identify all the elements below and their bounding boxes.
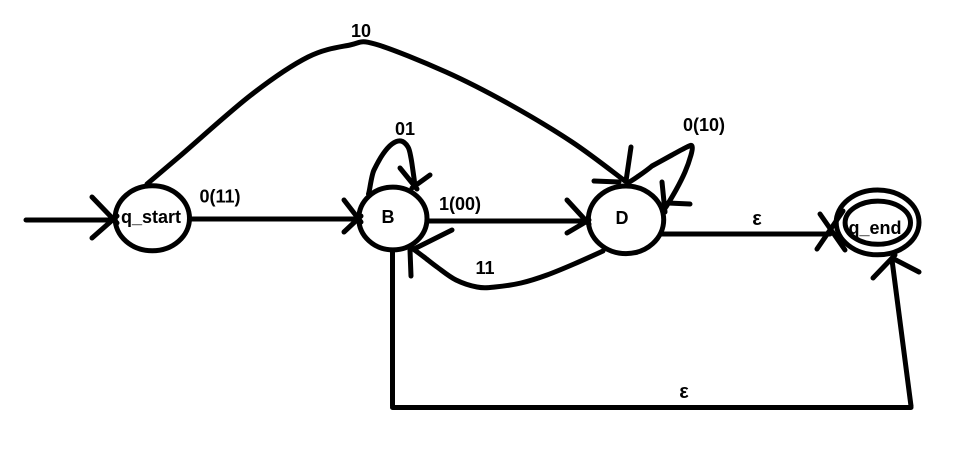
wire: q_start to B shaft, label 0(11) xyxy=(192,217,356,222)
svg-text:q_end: q_end xyxy=(848,218,901,238)
svg-text:ε: ε xyxy=(679,381,689,403)
wire: right rising segment of epsilon path to q_end xyxy=(892,260,911,406)
svg-text:D: D xyxy=(616,208,629,228)
wire: B self-loop, label 01 xyxy=(369,141,416,194)
svg-text:1(00): 1(00) xyxy=(439,194,481,214)
wire: D to q_end shaft, label epsilon xyxy=(661,232,830,237)
wire: arrowhead at q_end bottom xyxy=(873,255,919,278)
node q_end: inner circle of accepting state xyxy=(845,201,910,244)
svg-text:ε: ε xyxy=(752,208,762,230)
wire: arrowhead at B bottom-right for 11 xyxy=(410,230,452,276)
svg-text:0(11): 0(11) xyxy=(199,187,240,207)
node D: state circle xyxy=(588,186,663,254)
wire: start arrowhead at q_start xyxy=(92,197,117,238)
svg-text:0(10): 0(10) xyxy=(683,115,725,135)
wire: q_start to D big curve, label 10 xyxy=(147,42,625,184)
node q_end: outer circle of accepting state xyxy=(836,190,919,255)
node B: state circle xyxy=(359,187,427,250)
svg-text:B: B xyxy=(382,207,395,227)
wire: D to B curve, label 11 xyxy=(412,248,603,288)
wire: arrowhead at B left xyxy=(344,200,361,232)
wire: B to D shaft, label 1(00) xyxy=(427,219,585,224)
svg-text:11: 11 xyxy=(475,258,494,278)
wire: B self-loop arrowhead xyxy=(400,168,430,189)
wire: D self-loop, label 0(10) xyxy=(629,145,693,207)
svg-text:q_start: q_start xyxy=(121,207,181,227)
wire: arrowhead at D top xyxy=(594,147,631,182)
svg-text:10: 10 xyxy=(351,21,371,41)
wire: start arrow shaft into q_start xyxy=(26,218,112,223)
svg-text:01: 01 xyxy=(395,119,415,139)
wire: arrowhead at q_end left (crossed strokes) xyxy=(817,211,845,250)
wire: bottom horizontal segment of epsilon path xyxy=(393,405,912,410)
wire: D self-loop arrowhead xyxy=(662,182,690,212)
wire: arrowhead at D left xyxy=(567,200,589,233)
node q_start: state circle xyxy=(115,186,189,251)
wire: B down vertical segment of epsilon path xyxy=(390,251,395,406)
